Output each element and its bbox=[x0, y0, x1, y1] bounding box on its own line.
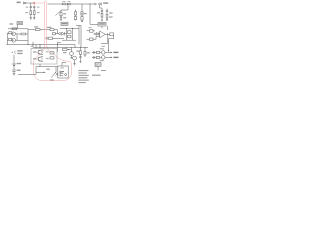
resistor R6 bbox=[36, 29, 51, 31]
wire right supply drop bbox=[100, 5, 102, 11]
junction dot A bbox=[66, 3, 67, 4]
resistor R16 bbox=[87, 36, 97, 40]
label box IC1 bbox=[17, 22, 23, 29]
arrow out2 bbox=[111, 57, 113, 59]
wire osc top rail bbox=[8, 28, 28, 30]
label box IC2 bbox=[61, 22, 68, 25]
wire supply top bbox=[26, 2, 34, 4]
wire ic3 right rail bbox=[101, 33, 108, 44]
capacitor C2 bbox=[33, 6, 35, 19]
resistor R9 bbox=[50, 52, 54, 59]
junction dot out bbox=[108, 50, 109, 51]
wire diagonal bbox=[56, 10, 62, 15]
capacitor C9 bbox=[106, 9, 108, 21]
junction dots rail2 bbox=[40, 47, 82, 48]
wire ic2 top bbox=[60, 28, 79, 30]
enclosure box tremolo bbox=[31, 49, 57, 65]
wire rail y44 extension bbox=[60, 45, 76, 48]
misc tiny labels bbox=[25, 1, 105, 59]
wire ic3 top bbox=[90, 4, 98, 24]
transistor Q1 bbox=[60, 13, 62, 20]
junction dots rail bbox=[28, 44, 59, 45]
node tick bbox=[94, 3, 96, 5]
diode D4 bbox=[96, 33, 99, 36]
wire ic3 out bbox=[105, 33, 110, 35]
wire top rail right bbox=[70, 3, 97, 5]
capacitor C1 bbox=[30, 3, 32, 19]
wire dropper bbox=[61, 4, 68, 13]
wire rail y47 bbox=[33, 46, 88, 48]
resistor R13 bbox=[68, 31, 71, 34]
output stage row2 bbox=[92, 56, 111, 60]
capacitor C8 bbox=[101, 11, 103, 22]
transistor Q3 bbox=[38, 57, 43, 62]
resistor R5 bbox=[81, 4, 83, 22]
resistor R10 bbox=[62, 49, 70, 51]
wire ic2 rails bbox=[62, 29, 76, 41]
diode D3 bbox=[62, 32, 67, 35]
node 9V+ label bbox=[17, 2, 21, 3]
diode D1 bbox=[62, 3, 66, 5]
arrow head bbox=[43, 72, 45, 73]
wire mid verticals bbox=[33, 42, 58, 52]
label smudges top right bbox=[63, 12, 112, 18]
diode D2 bbox=[67, 3, 70, 5]
wire bottom rail left bbox=[6, 44, 59, 46]
arrow out1 bbox=[111, 52, 113, 54]
connector J1 bbox=[23, 2, 26, 5]
node OUT labels bbox=[100, 48, 119, 61]
legend text block bbox=[78, 70, 88, 83]
transistor T1 bbox=[9, 32, 17, 36]
potentiometer VR1 bbox=[51, 67, 58, 78]
wire osc mid bbox=[17, 30, 28, 45]
resistor R2 bbox=[17, 33, 28, 35]
transistor T2 bbox=[9, 38, 17, 42]
wire rails down bbox=[76, 25, 81, 47]
transistor Q4 bbox=[70, 47, 74, 58]
jack box J3 bbox=[58, 66, 68, 78]
wire box bottom bbox=[36, 64, 58, 72]
resistor R8 bbox=[46, 37, 64, 39]
resistor R1 bbox=[12, 28, 17, 30]
battery label 9V bbox=[12, 51, 16, 54]
node Vcc label bbox=[103, 2, 108, 3]
wire ic3 drop bbox=[102, 26, 108, 30]
capacitor C7 bbox=[109, 33, 114, 50]
wire osc right branch bbox=[28, 28, 36, 31]
capacitor C4 bbox=[52, 33, 58, 35]
wire osc left rail bbox=[7, 33, 11, 45]
resistor R15 bbox=[87, 30, 95, 33]
battery B1 bbox=[12, 55, 16, 76]
resistor R7 bbox=[50, 29, 58, 34]
transistor Q5 bbox=[70, 56, 76, 65]
wire bottom left bbox=[18, 72, 36, 74]
flag symbol bbox=[95, 63, 101, 71]
wire top chain bbox=[48, 3, 63, 5]
node circle bbox=[94, 33, 96, 35]
label box IC3 bbox=[98, 22, 106, 26]
note text K2 bbox=[92, 70, 106, 76]
capacitor C6 bbox=[84, 47, 86, 57]
wire jack top bbox=[62, 63, 66, 67]
transistor input node bbox=[59, 33, 61, 35]
red loop highlight bbox=[34, 1, 72, 81]
output stage row1 bbox=[92, 51, 111, 55]
connector J2 bbox=[99, 3, 102, 6]
transistor Q2 bbox=[38, 50, 43, 55]
red junction dot bbox=[33, 2, 35, 4]
wire out join bbox=[108, 50, 110, 52]
resistor R14 bbox=[68, 35, 71, 38]
op-amp IC3a bbox=[96, 31, 105, 38]
resistor R11 bbox=[79, 47, 81, 62]
resistor R4 bbox=[74, 10, 76, 21]
